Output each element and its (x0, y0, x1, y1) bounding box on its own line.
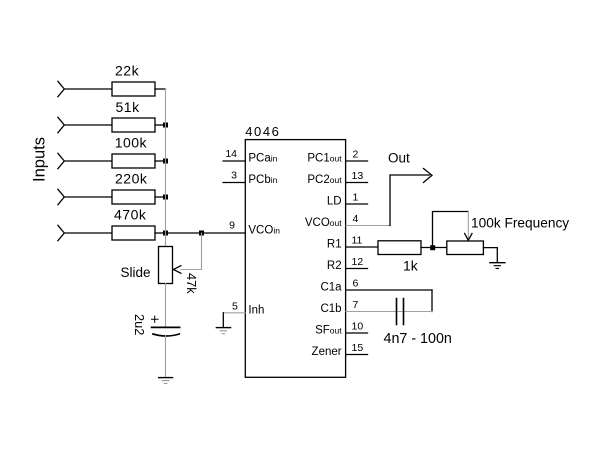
IC U1 4046 body (245, 140, 345, 378)
wire input4 to R 220k (64, 196, 112, 198)
resistor 470k (112, 226, 155, 240)
ground at pot (490, 262, 505, 264)
ground at Inh (216, 327, 230, 329)
svg-text:51k: 51k (116, 99, 141, 115)
svg-text:7: 7 (353, 299, 359, 311)
svg-text:Out: Out (388, 151, 410, 166)
svg-text:470k: 470k (114, 207, 147, 223)
wire bus to VCOin pin9 (166, 232, 246, 234)
svg-text:2u2: 2u2 (132, 314, 147, 335)
pin 2 PC1out stub (346, 160, 368, 162)
svg-text:11: 11 (352, 234, 363, 246)
input connector 3 (58, 153, 64, 168)
input connector 4 (58, 189, 64, 204)
resistor 100k (112, 154, 155, 168)
wire 22k to bus (155, 88, 166, 90)
pin 7 C1b stub (346, 311, 432, 313)
wire 470k to bus (155, 232, 166, 234)
svg-text:13: 13 (352, 170, 364, 182)
svg-text:3: 3 (231, 170, 237, 182)
svg-text:C1b: C1b (320, 303, 341, 315)
wire wiper loop (433, 212, 469, 248)
svg-text:R1: R1 (327, 239, 342, 251)
svg-text:Zener: Zener (312, 346, 342, 358)
pin 13 PC2out stub (346, 182, 368, 184)
input connector 1 (58, 81, 64, 96)
wiper shaft down (467, 212, 469, 239)
pin 11 R1 stub (346, 246, 378, 248)
potentiometer Slide 47k body (159, 247, 173, 284)
svg-text:Slide: Slide (121, 265, 151, 280)
pin 4 VCOout stub (346, 225, 390, 227)
pin 1 LD stub (346, 203, 368, 205)
svg-text:14: 14 (225, 148, 237, 160)
ground below 2u2 (159, 377, 173, 379)
input connector 5 (58, 225, 64, 240)
capacitor C1 plates (397, 299, 404, 325)
svg-text:R2: R2 (327, 260, 342, 272)
svg-text:PCbin: PCbin (248, 174, 277, 186)
wire input3 to R 100k (64, 160, 112, 162)
svg-text:VCOout: VCOout (305, 217, 342, 229)
junction 220k/bus (163, 195, 168, 200)
wire slide pot to capacitor 2u2 (165, 284, 167, 328)
wire 1k to pot (421, 247, 447, 249)
svg-text:100k: 100k (115, 135, 148, 151)
svg-text:10: 10 (352, 320, 364, 332)
slide wiper arrow (174, 266, 181, 274)
svg-text:15: 15 (352, 342, 364, 354)
svg-text:PC2out: PC2out (307, 174, 342, 186)
pin 10 SFout stub (346, 332, 368, 334)
svg-text:SFout: SFout (315, 325, 342, 337)
svg-text:1k: 1k (403, 257, 419, 273)
capacitor 2u2 polarized (152, 326, 180, 328)
svg-text:2: 2 (353, 148, 359, 160)
wire 100k to bus (155, 160, 166, 162)
svg-text:47k: 47k (184, 273, 199, 294)
svg-text:100k Frequency: 100k Frequency (471, 215, 569, 230)
svg-text:PCain: PCain (248, 153, 277, 165)
wire 51k to bus (155, 124, 166, 126)
svg-text:1: 1 (353, 191, 359, 203)
junction 51k/bus (163, 123, 168, 128)
pin 14 PCain stub (223, 160, 245, 162)
resistor 220k (112, 190, 155, 204)
svg-text:PC1out: PC1out (307, 153, 342, 165)
resistor 22k (112, 82, 155, 96)
svg-text:9: 9 (229, 220, 235, 232)
potentiometer 100k body (447, 241, 484, 255)
arrow Out (424, 169, 433, 183)
pin 5 Inh stub (223, 312, 245, 314)
wiper arrow into pot (465, 234, 472, 241)
svg-text:6: 6 (353, 277, 359, 289)
wire C1a corner down (431, 290, 433, 312)
wire input2 to R 51k (64, 124, 112, 126)
svg-text:C1a: C1a (320, 282, 342, 294)
svg-text:VCOin: VCOin (248, 225, 280, 237)
svg-text:4046: 4046 (245, 124, 280, 139)
bus vertical wire (165, 89, 167, 233)
wire input5 to R 470k (64, 232, 112, 234)
svg-text:12: 12 (352, 256, 364, 268)
svg-text:22k: 22k (115, 63, 140, 79)
svg-text:220k: 220k (115, 171, 148, 187)
wire capacitor 2u2 to ground (165, 336, 167, 378)
svg-text:Inputs: Inputs (31, 137, 49, 182)
wire Inh to ground (222, 313, 224, 328)
wire 220k to bus (155, 196, 166, 198)
svg-text:Inh: Inh (248, 304, 264, 316)
svg-text:4: 4 (353, 213, 359, 225)
plus sign 2u2 (152, 316, 159, 322)
svg-text:5: 5 (232, 300, 238, 312)
junction 470k/bus (163, 231, 168, 236)
svg-text:4n7 - 100n: 4n7 - 100n (384, 331, 452, 347)
wire tap down to slide wiper (181, 233, 202, 270)
pin 12 R2 stub (346, 268, 368, 270)
junction 100k/bus (163, 159, 168, 164)
junction slide tap (199, 231, 204, 236)
resistor 51k (112, 118, 155, 132)
resistor 1k (378, 241, 421, 255)
junction 1k/wiper (430, 245, 435, 250)
pin 3 PCbin stub (223, 182, 245, 184)
wire bus to slide pot top (165, 233, 167, 247)
pin 6 C1a stub (346, 289, 432, 291)
input connector 2 (58, 117, 64, 132)
svg-text:LD: LD (327, 196, 342, 208)
wire input1 to R 22k (64, 88, 112, 90)
wire pot to ground (483, 248, 497, 263)
wire VCOout up to Out (390, 175, 430, 226)
pin 15 Zener stub (346, 354, 368, 356)
